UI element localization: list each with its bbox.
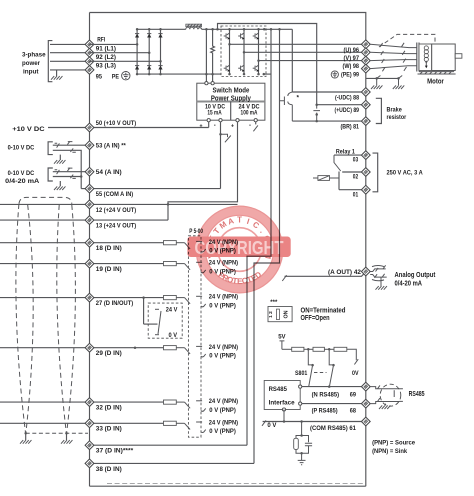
svg-text:+: +: [231, 124, 234, 130]
wire 81: [292, 120, 366, 122]
inverter dashed box: [221, 26, 266, 77]
5V node: [280, 341, 285, 349]
svg-text:COPYRIGHT: COPYRIGHT: [195, 238, 284, 258]
svg-text:input: input: [23, 69, 39, 76]
igbt leg 2 vertical: [243, 29, 245, 74]
wire 18: [0, 242, 90, 244]
wire 12: [0, 203, 90, 205]
svg-text:0-10 V DC: 0-10 V DC: [8, 170, 35, 177]
terminal 02: [361, 168, 370, 177]
terminal 55: [85, 184, 94, 193]
motor screen ground bus: [366, 77, 399, 79]
svg-text:OFF=Open: OFF=Open: [301, 315, 330, 322]
motor body: [432, 44, 456, 71]
input bracket: [48, 41, 52, 82]
motor wire W: [370, 60, 417, 61]
svg-text:-: -: [214, 123, 216, 129]
terminal 89: [361, 100, 370, 109]
brake chopper igbt: [288, 92, 293, 121]
motor cable clamp a: [380, 43, 385, 71]
wire W output: [259, 60, 366, 62]
diode D4: [135, 66, 139, 70]
igbt leg 3 vertical: [258, 29, 260, 74]
svg-text:0 V (PNP): 0 V (PNP): [209, 428, 236, 435]
PE earth circle symbol: [122, 72, 130, 80]
svg-text:Switch Mode: Switch Mode: [212, 88, 249, 95]
bridge bottom bus: [137, 73, 221, 75]
wire 93 to bridge: [90, 60, 161, 62]
svg-text:T: T: [237, 216, 242, 225]
motor cable clamp b: [402, 43, 407, 71]
bridge top bus: [137, 28, 186, 30]
earth input PE: [56, 70, 58, 76]
wire 55: [81, 188, 89, 190]
rs485 cable wire P: [370, 402, 399, 404]
svg-text:(+UDC) 89: (+UDC) 89: [335, 107, 360, 114]
drive enclosure bottom border: [295, 485, 366, 487]
igbt Q3: [256, 31, 259, 41]
wire N RS485: [302, 386, 366, 388]
analog out earth: [380, 277, 382, 286]
rs485 interface box: [264, 381, 300, 410]
terminal 54: [85, 167, 94, 176]
wire L2 input: [50, 52, 90, 54]
terminal 69: [361, 382, 370, 391]
termination resistor R1: [292, 347, 304, 351]
svg-text:(BR) 81: (BR) 81: [341, 124, 360, 131]
motor shaft: [455, 54, 462, 59]
svg-text:38 (D IN): 38 (D IN): [96, 466, 122, 473]
wire 92 to bridge: [90, 52, 150, 54]
terminal 96 U: [361, 40, 370, 49]
watermark stamp: [187, 206, 290, 293]
cable bundle jacket top: [19, 197, 72, 203]
bleeder resistor: [211, 29, 215, 83]
svg-text:RS485: RS485: [269, 386, 288, 393]
termination resistor R3: [334, 347, 347, 351]
relay bracket: [373, 153, 378, 192]
cable shield earth 1: [25, 433, 27, 440]
screen ground 2: [397, 77, 400, 80]
rs485 pin COM: [282, 408, 285, 411]
smps 24V- hanging switch: [255, 122, 257, 125]
dip switch box: [268, 307, 292, 322]
cable bundle leg 4: [67, 205, 76, 433]
svg-text:+10 V DC: +10 V DC: [12, 126, 45, 133]
S801 gang dashed: [314, 372, 327, 374]
motor wire V: [370, 52, 417, 53]
svg-text:93 (L3): 93 (L3): [96, 63, 116, 70]
svg-text:92 (L2): 92 (L2): [96, 54, 116, 61]
relay wire 03: [334, 154, 366, 156]
svg-text:RS485: RS485: [409, 391, 425, 398]
terminal 19: [85, 259, 94, 268]
relay wire 01: [338, 172, 340, 190]
svg-text:03: 03: [353, 157, 359, 164]
svg-text:RFI: RFI: [97, 37, 105, 44]
shield clamp 53c: [70, 148, 75, 152]
svg-text:Motor: Motor: [427, 77, 444, 86]
svg-text:power: power: [22, 60, 40, 67]
brake chopper feed: [291, 29, 293, 92]
smps feed 1: [205, 29, 207, 83]
S801 switch 1: [308, 349, 312, 386]
svg-text:-: -: [249, 123, 251, 129]
diode D2: [147, 34, 151, 38]
wire 53: [53, 144, 90, 146]
svg-text:0/4-20 mA: 0/4-20 mA: [395, 280, 423, 287]
input resistor 29: [164, 346, 177, 350]
wire 33: [0, 422, 90, 424]
cable shield dashed link: [26, 432, 88, 434]
analog source bracket 53: [48, 142, 53, 155]
terminal 32: [85, 398, 94, 407]
svg-text:27 (D IN/OUT): 27 (D IN/OUT): [96, 300, 133, 307]
motor wire PE: [370, 66, 417, 69]
svg-text:100 mA: 100 mA: [241, 110, 258, 117]
earth 53: [59, 155, 61, 160]
wire 27 branch: [143, 298, 145, 325]
svg-text:(A OUT) 42: (A OUT) 42: [328, 269, 361, 276]
wire 50: [48, 127, 90, 129]
input resistor 18: [164, 241, 177, 245]
svg-text:PE: PE: [112, 73, 120, 80]
wire 13: [0, 219, 90, 221]
terminal 81: [361, 117, 370, 126]
svg-text:+: +: [200, 123, 203, 129]
wire 37: [90, 444, 248, 446]
smps box: [197, 83, 265, 120]
node U tap: [228, 43, 231, 46]
S801 switch 2: [329, 349, 333, 386]
terminal 12: [85, 200, 94, 209]
terminal 33: [85, 419, 94, 428]
svg-text:24 V: 24 V: [166, 307, 178, 314]
smps top pin 2: [211, 82, 214, 85]
igbt Q6: [256, 63, 259, 73]
svg-text:18 (D IN): 18 (D IN): [96, 245, 122, 252]
svg-text:32 (D IN): 32 (D IN): [96, 405, 122, 412]
24V feed from smps: [168, 122, 238, 220]
diode D3: [158, 34, 162, 38]
svg-text:0 V (PNP): 0 V (PNP): [209, 407, 236, 414]
svg-text:37 (D IN)****: 37 (D IN)****: [96, 448, 134, 455]
wire PE input: [50, 69, 90, 71]
igbt Q4: [227, 63, 230, 73]
svg-text:0/4-20 mA: 0/4-20 mA: [5, 178, 39, 185]
terminal 29: [85, 343, 94, 352]
terminal 03: [361, 151, 370, 160]
svg-text:ON: ON: [283, 310, 289, 318]
svg-text:3-phase: 3-phase: [22, 52, 46, 59]
svg-text:19 (D IN): 19 (D IN): [96, 266, 122, 273]
svg-text:(NPN) = Sink: (NPN) = Sink: [372, 448, 407, 455]
shield clamp 53a: [55, 143, 60, 147]
wire 38: [90, 462, 255, 464]
bottom bus stub to rail A: [264, 73, 271, 75]
terminal 68: [361, 399, 370, 408]
svg-text:250 V AC, 3 A: 250 V AC, 3 A: [387, 170, 423, 177]
svg-text:53 (A IN) **: 53 (A IN) **: [96, 143, 126, 150]
svg-text:55 (COM A IN): 55 (COM A IN): [96, 191, 133, 198]
selector dashed box 27: [148, 303, 182, 338]
screen ground 1: [375, 77, 378, 80]
motor winding arrow: [425, 61, 427, 63]
svg-text:(PE) 99: (PE) 99: [341, 72, 359, 79]
smps top pin 1: [205, 82, 208, 85]
svg-text:0V: 0V: [352, 370, 359, 377]
svg-text:68: 68: [350, 408, 357, 415]
igbt Q5: [241, 63, 244, 73]
svg-text:Power Supply: Power Supply: [211, 95, 251, 102]
wire U output: [230, 43, 366, 45]
smps bottom pin 10V-: [219, 119, 222, 122]
svg-text:ON=Terminated: ON=Terminated: [301, 308, 346, 315]
shield clamp 54b: [67, 168, 72, 171]
inductor windings: [186, 27, 202, 29]
selector blade: [158, 311, 161, 334]
analog out pair upper: [370, 266, 386, 272]
svg-text:91 (L1): 91 (L1): [96, 46, 116, 53]
igbt Q2: [241, 31, 244, 41]
cable bundle leg 3: [57, 205, 67, 433]
svg-text:50 (+10 V OUT): 50 (+10 V OUT): [96, 120, 136, 127]
svg-text:5V: 5V: [278, 333, 286, 340]
rail B to terminal 38: [254, 29, 280, 463]
rc earth: [298, 460, 306, 464]
analog source bracket 54: [48, 168, 53, 181]
wire 19: [0, 263, 90, 265]
relay coil: [318, 176, 330, 181]
smps bottom pin 24V+: [236, 119, 239, 122]
svg-text:0-10 V DC: 0-10 V DC: [8, 144, 35, 151]
motor terminal box: [419, 44, 432, 71]
cable shield earth 2: [66, 433, 68, 440]
analog out pair lower: [370, 275, 387, 281]
svg-text:0 V (PNP): 0 V (PNP): [209, 302, 236, 309]
svg-text:(U) 96: (U) 96: [344, 47, 360, 54]
dc link capacitor: [313, 105, 320, 121]
terminal 42: [361, 267, 370, 276]
rail A to terminal 37: [247, 29, 271, 445]
wire L3 input: [50, 60, 90, 62]
svg-text:12 (+24 V OUT): 12 (+24 V OUT): [96, 207, 136, 214]
svg-text:***: ***: [270, 299, 277, 306]
svg-text:24 V (NPN): 24 V (NPN): [209, 419, 238, 426]
terminal 38: [85, 459, 94, 468]
svg-text:(V) 97: (V) 97: [344, 55, 360, 62]
wire V output: [244, 51, 366, 53]
termination resistor R2: [313, 347, 324, 351]
svg-text:24 V (NPN): 24 V (NPN): [209, 344, 238, 351]
label 0V com: [262, 420, 266, 425]
terminal 95 PE: [85, 66, 94, 75]
motor base: [418, 72, 456, 74]
terminal 91 (L1): [85, 40, 94, 49]
svg-text:13 (+24 V OUT): 13 (+24 V OUT): [96, 223, 136, 230]
termination rail: [282, 348, 292, 350]
terminal 97 V: [361, 48, 370, 57]
wire 27: [0, 297, 90, 299]
10V- riser with switch: [220, 122, 222, 189]
motor winding: [424, 46, 428, 50]
svg-text:(N RS485): (N RS485): [312, 391, 340, 398]
selector 24V contact: [155, 308, 159, 310]
rectifier leg 3: [160, 29, 162, 74]
terminal 61: [361, 417, 370, 426]
relay wire 02: [342, 171, 366, 173]
wire P RS485: [302, 403, 366, 405]
rs485 cable wire N: [370, 387, 399, 389]
terminal 01: [361, 185, 370, 194]
terminal 53: [85, 141, 94, 150]
+UDC rail to capacitor: [218, 24, 317, 105]
PE earth circle 99: [331, 71, 338, 78]
brake resistor bracket: [376, 98, 382, 123]
input resistor 33: [164, 421, 177, 425]
svg-text:0 V (PNP): 0 V (PNP): [209, 352, 236, 359]
motor cable shield dashed: [379, 34, 435, 47]
terminal 50: [85, 123, 94, 132]
rs485 pin N: [299, 385, 302, 388]
inductor core: [186, 24, 202, 27]
svg-text:15 mA: 15 mA: [207, 110, 222, 117]
terminal 13: [85, 216, 94, 225]
diode D1: [135, 34, 139, 38]
shield clamp 54c: [70, 175, 75, 179]
svg-text:33 (D IN): 33 (D IN): [96, 426, 122, 433]
analog return 53: [53, 150, 81, 188]
dc bus top: [202, 28, 293, 30]
rs485 cable earth: [385, 404, 387, 406]
svg-text:Analog Output: Analog Output: [395, 272, 436, 279]
svg-text:0 V: 0 V: [169, 332, 178, 339]
svg-text:54 (A IN): 54 (A IN): [96, 169, 122, 176]
input resistor 27: [164, 296, 177, 300]
diode D5: [147, 66, 151, 70]
svg-text:02: 02: [353, 174, 359, 181]
svg-text:01: 01: [353, 191, 359, 198]
terminal 98 W: [361, 56, 370, 65]
svg-text:Interface: Interface: [269, 400, 295, 407]
diode D6: [158, 66, 162, 70]
wire 29: [0, 347, 90, 349]
svg-text:69: 69: [350, 391, 357, 398]
svg-text:(P RS485): (P RS485): [312, 408, 338, 415]
terminal 27: [85, 293, 94, 302]
rectifier leg 2: [148, 29, 150, 74]
parameter dashed box P5-00: [188, 236, 201, 437]
rs485 cable shield: [380, 384, 401, 406]
svg-text:29 (D IN): 29 (D IN): [96, 350, 122, 357]
svg-text:(COM RS485) 61: (COM RS485) 61: [310, 425, 356, 432]
wire 89: [317, 104, 366, 106]
smps bottom pin 24V-: [254, 119, 257, 122]
igbt Q1: [227, 31, 230, 41]
rail open switch 0V: [354, 359, 358, 364]
motor shield clamp plate: [416, 43, 418, 72]
svg-text:Brake: Brake: [387, 106, 402, 113]
input resistor 19: [164, 262, 177, 266]
smps bottom pin 10V+: [207, 119, 210, 122]
rs485 pin P: [299, 402, 302, 405]
inverter bus exit dot: [263, 28, 266, 31]
analog return 54: [53, 176, 81, 178]
svg-text:(-UDC) 88: (-UDC) 88: [335, 95, 359, 102]
wire L1 input: [50, 43, 90, 45]
rectifier leg 1: [136, 29, 138, 74]
motor wire U: [370, 44, 417, 47]
svg-text:(PNP) = Source: (PNP) = Source: [372, 439, 415, 446]
shield clamp 53b: [67, 141, 72, 144]
svg-text:24 V (NPN): 24 V (NPN): [209, 398, 238, 405]
terminal 92 (L2): [85, 48, 94, 57]
wire 91 to bridge: [90, 43, 138, 45]
wire 42: [285, 272, 366, 276]
drive enclosure outline: [90, 13, 366, 487]
igbt leg 1 vertical: [229, 29, 231, 74]
wire 54: [53, 171, 90, 173]
cable bundle leg 2: [26, 205, 33, 433]
cable bundle leg 1: [16, 204, 26, 433]
svg-text:S801: S801: [295, 370, 308, 377]
svg-text:24 V (NPN): 24 V (NPN): [209, 294, 238, 301]
wire 88: [292, 91, 366, 93]
rc snubber: [296, 422, 309, 461]
svg-text:95: 95: [96, 73, 102, 80]
shield clamp 54a: [55, 170, 60, 174]
terminal 99 PE: [361, 64, 370, 73]
wire 32: [0, 401, 90, 403]
terminal 18: [85, 238, 94, 247]
svg-text:resistor: resistor: [387, 114, 407, 121]
svg-text:1 2: 1 2: [268, 311, 274, 318]
selector 0V contact: [155, 334, 159, 336]
wire COM RS485: [263, 421, 366, 423]
terminal 88: [361, 88, 370, 97]
node V tap: [243, 51, 246, 54]
svg-text:(W) 98: (W) 98: [343, 63, 360, 70]
smps divider: [197, 101, 265, 103]
node W tap: [257, 59, 260, 62]
svg-text:0 V: 0 V: [267, 422, 277, 429]
input resistor 32: [164, 400, 177, 404]
relay blade: [334, 155, 341, 171]
earth 54: [59, 181, 61, 186]
terminal 37: [85, 441, 94, 450]
terminal 93 (L3): [85, 57, 94, 66]
